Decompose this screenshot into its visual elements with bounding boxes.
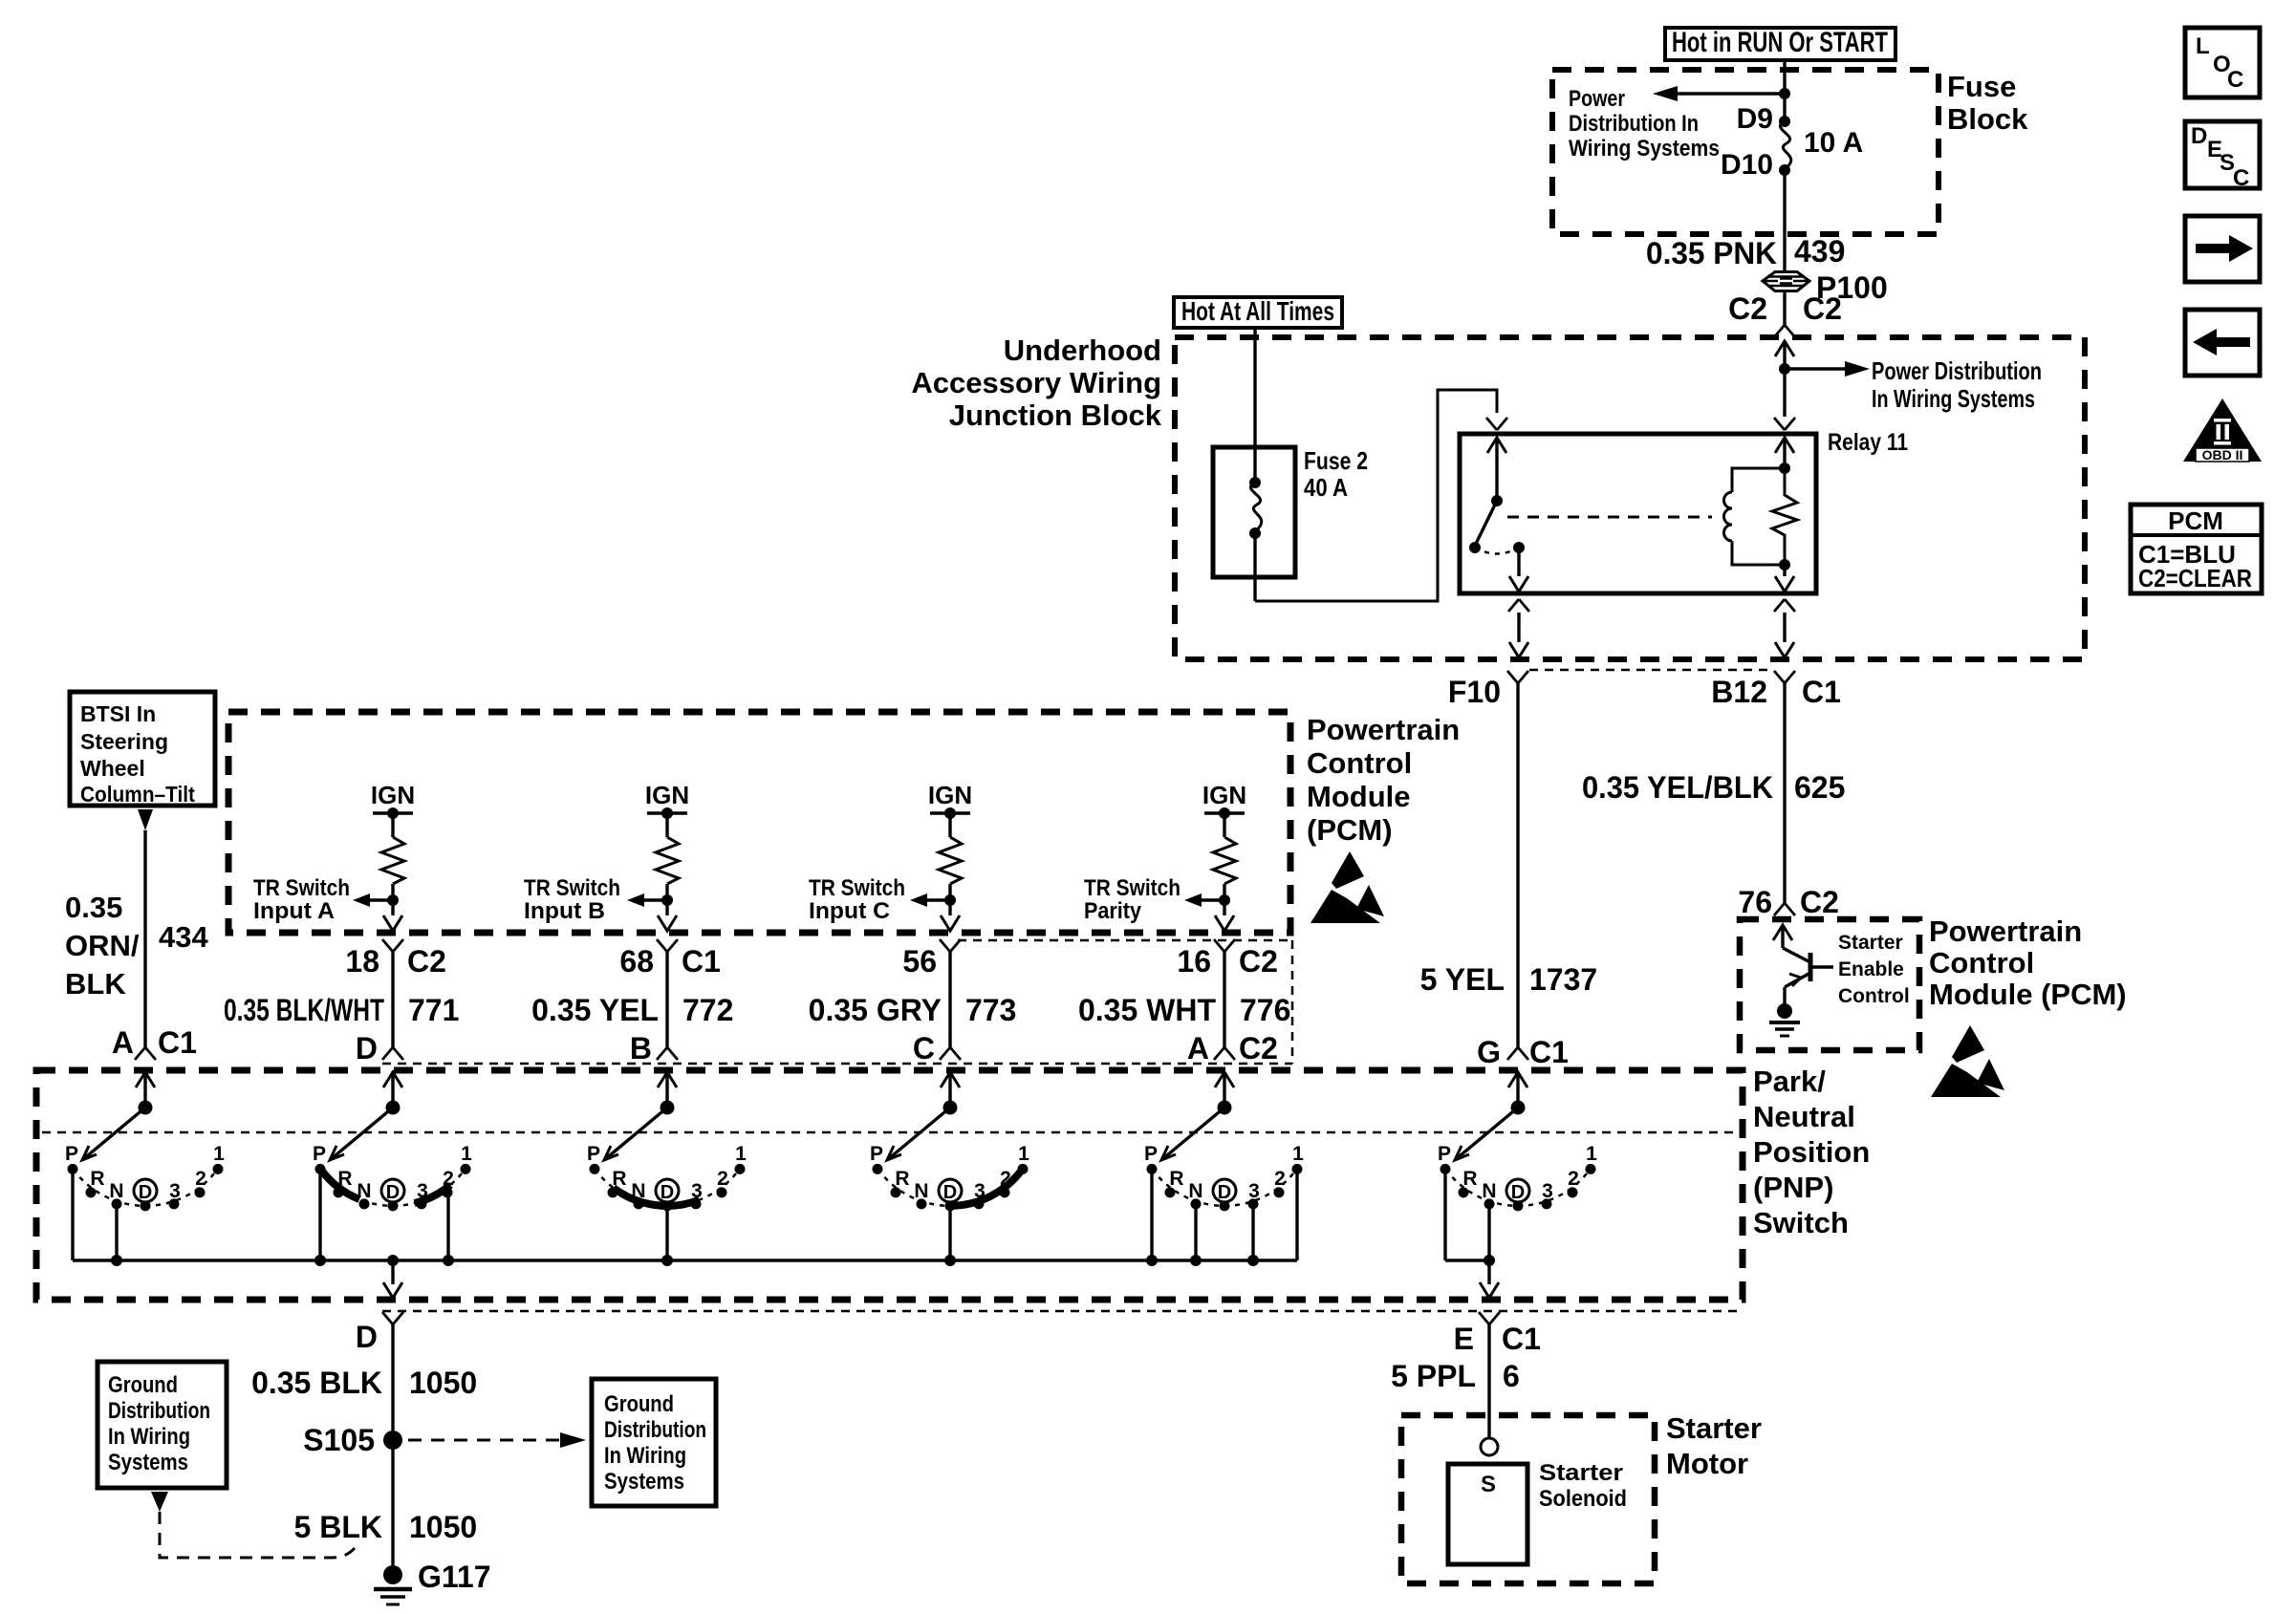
connector chevron F10	[1507, 671, 1528, 683]
svg-text:In Wiring: In Wiring	[108, 1424, 190, 1450]
svg-text:C1: C1	[1502, 1322, 1541, 1356]
relay coil bottom node	[1779, 559, 1790, 570]
svg-text:Underhood: Underhood	[1004, 334, 1161, 367]
svg-text:Module: Module	[1307, 780, 1411, 813]
PNP rotary switch S3 (B) - circled D position	[656, 1179, 679, 1202]
svg-text:P: P	[587, 1143, 600, 1165]
wire D10 to P100	[1783, 170, 1786, 271]
connector thin-dashed line below PNP	[382, 1310, 1737, 1313]
node TR input (Input C)	[944, 894, 956, 906]
icon box forward arrow	[2185, 216, 2260, 282]
svg-text:N: N	[109, 1180, 123, 1202]
connector chevron pin 68	[657, 939, 678, 952]
connector thin-dashed box (PCM C2 pins)	[958, 939, 1292, 942]
wire entering junction block with arrowhead	[1775, 341, 1794, 356]
svg-text:Distribution: Distribution	[108, 1398, 210, 1424]
svg-text:ORN/: ORN/	[65, 929, 140, 962]
svg-text:Hot At All Times: Hot At All Times	[1181, 296, 1334, 326]
PNP rotary switch S4 (C) - arm pivot dot	[943, 1101, 958, 1115]
label box Ground Distribution In Wiring Systems (left)	[97, 1362, 227, 1488]
svg-text:B: B	[630, 1031, 652, 1065]
svg-text:1737: 1737	[1529, 962, 1597, 997]
wire BTSI to PNP switch (0.35 ORN/BLK 434)	[143, 830, 146, 1047]
PNP rotary switch S4 (C) - contact arc (dashed)	[877, 1169, 1022, 1205]
svg-text:3: 3	[1248, 1180, 1260, 1202]
svg-text:G: G	[1477, 1035, 1501, 1069]
svg-text:(PCM): (PCM)	[1307, 813, 1393, 847]
PNP rotary switch S4 (C) - arm wire	[948, 1072, 951, 1108]
svg-text:BLK: BLK	[65, 967, 126, 1001]
wire 5 PPL 6 to starter solenoid	[1487, 1324, 1490, 1438]
svg-text:Ground: Ground	[604, 1391, 674, 1417]
svg-text:Relay 11: Relay 11	[1828, 429, 1908, 456]
svg-text:1050: 1050	[409, 1366, 477, 1400]
svg-text:2: 2	[195, 1168, 206, 1190]
PNP rotary switch S6 (G) - wiper arm to P	[1455, 1108, 1518, 1160]
svg-text:Position: Position	[1753, 1135, 1870, 1169]
wire 0.35 YEL 772	[665, 952, 668, 1047]
PNP rotary switch S3 (B) - arm pivot dot	[661, 1101, 675, 1115]
svg-text:C: C	[913, 1031, 935, 1065]
svg-text:Ground: Ground	[108, 1372, 178, 1398]
svg-text:N: N	[631, 1180, 645, 1202]
svg-text:3: 3	[417, 1180, 428, 1202]
arrow from BTSI box into wire	[138, 809, 153, 830]
connector chevron PNP pin A	[135, 1047, 156, 1060]
svg-text:Systems: Systems	[604, 1469, 684, 1495]
PNP rotary switch S3 (B) - arm wire	[665, 1072, 668, 1108]
wire TR input to PCM edge (Parity)	[1223, 900, 1225, 915]
relay actuation dashed link	[1507, 516, 1712, 519]
svg-text:D: D	[1511, 1182, 1525, 1203]
svg-text:C2: C2	[1728, 291, 1767, 326]
relay switch pivot dot	[1491, 495, 1503, 506]
svg-text:IGN: IGN	[371, 781, 415, 809]
PNP rotary switch S2 (D) - circled D position	[381, 1179, 404, 1202]
connector chevron pin 18	[382, 939, 403, 952]
PNP rotary switch S6 (G) - contact arc (dashed)	[1445, 1169, 1590, 1205]
PNP rotary switch S1 (A) - circled D position	[134, 1179, 157, 1202]
Park/Neutral Position Switch dashed outline	[36, 1070, 1743, 1300]
svg-text:R: R	[90, 1168, 104, 1190]
wire PNP output D to box edge	[391, 1260, 394, 1284]
svg-text:D10: D10	[1721, 149, 1773, 181]
svg-text:A: A	[1187, 1031, 1209, 1065]
wire B12 down to PCM (0.35 YEL/BLK 625)	[1783, 683, 1786, 903]
transistor base lead	[1810, 965, 1833, 968]
node TR input (Input A)	[387, 894, 399, 906]
svg-text:1: 1	[735, 1143, 747, 1165]
svg-text:0.35 PNK: 0.35 PNK	[1646, 236, 1777, 270]
ground - PCM starter enable	[1777, 1003, 1792, 1019]
svg-text:68: 68	[619, 944, 654, 979]
svg-text:Switch: Switch	[1753, 1206, 1849, 1239]
svg-text:Input A: Input A	[253, 898, 335, 924]
svg-text:N: N	[1482, 1180, 1496, 1202]
PNP rotary switch S5 (A) - contact arc (dashed)	[1152, 1169, 1296, 1205]
transistor Q - starter enable control, collector arrow	[1773, 925, 1792, 940]
relay Relay 11 box	[1460, 434, 1816, 593]
svg-text:N: N	[914, 1180, 928, 1202]
resistor pull-up (Input C)	[948, 813, 951, 837]
arrow from left ground box	[151, 1492, 168, 1512]
svg-text:C1: C1	[1802, 675, 1841, 709]
PNP rotary switch S4 (C) - contact dots P R N D 3 2 1	[873, 1164, 883, 1174]
svg-text:Park/: Park/	[1753, 1065, 1826, 1098]
PNP rotary switch S6 (G) - contact drop wire	[1487, 1204, 1490, 1260]
svg-text:773: 773	[965, 993, 1016, 1027]
connector chevron PNP pin D	[382, 1047, 403, 1060]
svg-text:R: R	[1462, 1168, 1477, 1190]
svg-text:Control: Control	[1838, 985, 1910, 1007]
transistor base bar	[1809, 953, 1813, 981]
PNP rotary switch S3 (B) - contact drop wire	[665, 1206, 668, 1260]
connector chevron PNP pin A	[1214, 1047, 1235, 1060]
svg-text:N: N	[357, 1180, 371, 1202]
PNP rotary switch S3 (B) - contact arc (dashed)	[595, 1169, 739, 1205]
svg-text:D: D	[356, 1320, 378, 1354]
starter solenoid box	[1448, 1464, 1527, 1564]
PNP rotary switch S3 (B) - contact dots P R N D 3 2 1	[590, 1164, 600, 1174]
IGN supply bar and node (Parity)	[1204, 811, 1245, 814]
relay switch pin arrow (common in)	[1487, 438, 1506, 453]
wire F10 down to PNP switch (5 YEL 1737)	[1516, 683, 1519, 1047]
PNP rotary switch S2 (D) - contact drop wire	[446, 1193, 449, 1260]
svg-text:Distribution: Distribution	[604, 1417, 706, 1443]
relay input chevrons	[1486, 418, 1507, 430]
svg-text:5 YEL: 5 YEL	[1420, 962, 1505, 997]
relay suppression resistor	[1772, 468, 1797, 565]
svg-text:A: A	[112, 1025, 134, 1060]
connector chevron PNP pin B	[657, 1047, 678, 1060]
svg-text:R: R	[612, 1168, 626, 1190]
label box BTSI In Steering Wheel Column-Tilt	[70, 692, 215, 806]
svg-text:C2=CLEAR: C2=CLEAR	[2138, 564, 2252, 592]
svg-text:Power Distribution: Power Distribution	[1872, 356, 2042, 385]
svg-text:D: D	[139, 1182, 152, 1203]
svg-text:In Wiring: In Wiring	[604, 1443, 686, 1469]
label box Ground Distribution In Wiring Systems (right)	[592, 1379, 716, 1506]
PNP rotary switch S4 (C) - closed contact segment	[947, 1169, 1023, 1205]
PNP rotary switch S2 (D) - wiper arm to P	[330, 1108, 393, 1160]
PNP rotary switch S6 (G) - arm wire	[1516, 1072, 1519, 1108]
dashed leader S105 to Ground Distribution	[408, 1439, 560, 1442]
svg-text:D: D	[356, 1031, 378, 1065]
fuse element S-curve	[1780, 121, 1790, 169]
svg-text:0.35 YEL/BLK: 0.35 YEL/BLK	[1582, 770, 1773, 805]
svg-text:Input B: Input B	[524, 898, 605, 924]
relay coil loop wiring	[1732, 468, 1785, 565]
svg-text:0.35 YEL: 0.35 YEL	[531, 993, 659, 1027]
wire TR input to PCM edge (Input C)	[948, 900, 951, 915]
svg-text:C2: C2	[1239, 1031, 1278, 1065]
svg-text:R: R	[895, 1168, 909, 1190]
ESD sensitivity triangle symbol (PCM TR inputs)	[1332, 851, 1364, 889]
svg-text:S105: S105	[303, 1423, 375, 1457]
svg-text:2: 2	[443, 1168, 454, 1190]
svg-text:56: 56	[902, 944, 937, 979]
svg-text:D: D	[2191, 123, 2207, 149]
connector chevron PNP pin C	[940, 1047, 961, 1060]
PCM connector color legend table	[2131, 505, 2262, 593]
Underhood Accessory Wiring Junction Block dashed outline	[1175, 337, 2085, 659]
svg-text:Distribution In: Distribution In	[1569, 111, 1699, 137]
wire from Hot in RUN into fuse block	[1783, 60, 1786, 121]
svg-text:18: 18	[345, 944, 379, 979]
PNP rotary switch S4 (C) - contact drop wire	[948, 1206, 951, 1260]
wire 0.35 BLK/WHT 771	[391, 952, 394, 1047]
PNP rotary switch S3 (B) - wiper arm to P	[604, 1108, 667, 1160]
svg-text:434: 434	[159, 920, 208, 954]
svg-text:1050: 1050	[409, 1510, 477, 1544]
svg-text:Starter: Starter	[1666, 1411, 1762, 1445]
PNP rotary switch S6 (G) - circled D position	[1506, 1179, 1529, 1202]
svg-text:439: 439	[1794, 234, 1845, 269]
PNP rotary switch S1 (A) - arm pivot dot	[139, 1101, 153, 1115]
svg-text:C2: C2	[1803, 291, 1842, 326]
arrow TR switch input (Input B)	[644, 898, 667, 901]
svg-text:P: P	[870, 1143, 883, 1165]
svg-text:0.35 BLK/WHT: 0.35 BLK/WHT	[224, 993, 384, 1027]
svg-text:Control: Control	[1307, 746, 1412, 780]
svg-text:2: 2	[1000, 1168, 1011, 1190]
PNP rotary switch S4 (C) - wiper arm to P	[887, 1108, 950, 1160]
wire PNP output E to box edge	[1487, 1260, 1490, 1284]
svg-text:776: 776	[1240, 993, 1290, 1027]
svg-text:C1: C1	[158, 1025, 197, 1060]
arrow to Power Distribution In Wiring Systems (left)	[1678, 92, 1785, 95]
PNP rotary switch S2 (D) - contact dots P R N D 3 2 1	[315, 1164, 326, 1174]
PNP rotary switch S2 (D) - arm pivot dot	[386, 1101, 401, 1115]
Fuse Block dashed outline	[1552, 70, 1939, 234]
svg-text:D: D	[386, 1182, 400, 1203]
PNP rotary switch S5 (A) - arm pivot dot	[1218, 1101, 1232, 1115]
svg-text:S: S	[1481, 1472, 1496, 1497]
wire 0.35 GRY 773	[948, 952, 951, 1047]
svg-text:F10: F10	[1448, 675, 1501, 709]
wire relay coil output to junction block edge	[1783, 613, 1786, 642]
arrow TR switch input (Parity)	[1202, 898, 1224, 901]
svg-text:Systems: Systems	[108, 1450, 188, 1475]
svg-text:40 A: 40 A	[1304, 473, 1348, 502]
label box "Hot At All Times"	[1174, 297, 1342, 328]
starter solenoid terminal circle	[1481, 1438, 1498, 1455]
wire P100 to junction block	[1783, 291, 1786, 325]
svg-text:Wheel: Wheel	[80, 756, 145, 781]
connector thin-dashed line F10-B12	[1529, 669, 1774, 672]
icon box DESC	[2185, 121, 2260, 188]
resistor pull-up (Input A)	[391, 813, 394, 837]
fuse Fuse 2 element	[1249, 477, 1261, 488]
node - power distribution tap in junction block	[1779, 363, 1790, 375]
svg-text:Fuse 2: Fuse 2	[1304, 446, 1368, 475]
PNP rotary switch S5 (A) - contact drop wire	[1295, 1169, 1298, 1260]
svg-text:N: N	[1188, 1180, 1202, 1202]
svg-text:1: 1	[1018, 1143, 1029, 1165]
svg-text:Neutral: Neutral	[1753, 1100, 1855, 1133]
svg-text:625: 625	[1794, 770, 1845, 805]
PNP rotary switch S2 (D) - closed contact segment	[320, 1169, 359, 1199]
svg-text:6: 6	[1503, 1359, 1520, 1393]
svg-text:Accessory Wiring: Accessory Wiring	[911, 366, 1161, 399]
PNP rotary switch S5 (A) - contact dots P R N D 3 2 1	[1147, 1164, 1158, 1174]
node S6 output	[1484, 1255, 1495, 1266]
svg-text:P: P	[313, 1143, 326, 1165]
PNP rotary switch S2 (D) - arm wire	[391, 1072, 394, 1108]
svg-text:R: R	[1169, 1168, 1183, 1190]
PNP rotary switch S2 (D) - contact drop wire	[318, 1169, 321, 1260]
svg-text:76: 76	[1738, 885, 1772, 919]
svg-text:5 BLK: 5 BLK	[294, 1510, 382, 1544]
PNP rotary switch S6 (G) - contact drop wire	[1443, 1169, 1446, 1260]
label box "Hot in RUN Or START"	[1665, 28, 1895, 60]
svg-text:C: C	[2227, 67, 2243, 93]
svg-text:1: 1	[1586, 1143, 1597, 1165]
wire TR input to PCM edge (Input A)	[391, 900, 394, 915]
Starter Motor dashed outline	[1401, 1415, 1655, 1583]
PNP rotary switch S1 (A) - arm wire	[143, 1072, 146, 1108]
PNP rotary switch S1 (A) - wiper arm to P	[82, 1108, 145, 1160]
svg-text:D: D	[1218, 1182, 1231, 1203]
icon box LOC	[2185, 28, 2260, 97]
svg-text:0.35 GRY: 0.35 GRY	[809, 993, 942, 1027]
svg-text:P: P	[65, 1143, 78, 1165]
relay output chevrons below box	[1508, 599, 1529, 612]
svg-text:771: 771	[408, 993, 459, 1027]
wire from Fuse 2 to relay switch pin (L-shape)	[1255, 390, 1497, 601]
svg-text:E: E	[1454, 1322, 1474, 1356]
svg-text:C2: C2	[407, 944, 446, 979]
svg-text:0.35: 0.35	[65, 891, 122, 924]
svg-text:Starter: Starter	[1539, 1460, 1623, 1486]
svg-text:C1: C1	[1529, 1035, 1569, 1069]
PNP rotary switch S5 (A) - contact drop wire	[1150, 1169, 1153, 1260]
icon OBD II triangle	[2183, 398, 2262, 462]
svg-text:TR Switch: TR Switch	[809, 875, 905, 901]
svg-text:Wiring Systems: Wiring Systems	[1569, 136, 1720, 161]
svg-text:2: 2	[1568, 1168, 1579, 1190]
connector chevron 76/C2	[1774, 903, 1795, 915]
relay coil pin arrow	[1775, 438, 1794, 453]
svg-text:Parity: Parity	[1084, 898, 1142, 924]
svg-text:IGN: IGN	[645, 781, 689, 809]
ground G117	[383, 1565, 402, 1584]
svg-text:PCM: PCM	[2168, 506, 2223, 535]
node TR input (Input B)	[661, 894, 673, 906]
svg-text:BTSI In: BTSI In	[80, 701, 156, 726]
svg-text:3: 3	[1542, 1180, 1553, 1202]
connector chevron at C2	[1774, 325, 1795, 337]
node - power distribution tap in fuse block	[1779, 88, 1790, 99]
svg-text:Powertrain: Powertrain	[1307, 713, 1460, 746]
svg-text:0.35 BLK: 0.35 BLK	[251, 1366, 382, 1400]
connector chevron pin 16	[1214, 939, 1235, 952]
svg-text:D: D	[661, 1182, 674, 1203]
svg-text:OBD II: OBD II	[2202, 447, 2243, 463]
IGN supply bar and node (Input C)	[930, 811, 970, 814]
wire TR input to PCM edge (Input B)	[665, 900, 668, 915]
svg-text:Enable: Enable	[1838, 958, 1904, 980]
svg-text:P: P	[1438, 1143, 1451, 1165]
svg-text:1: 1	[1292, 1143, 1304, 1165]
svg-text:C1: C1	[682, 944, 721, 979]
PNP rotary switch S5 (A) - circled D position	[1213, 1179, 1236, 1202]
PNP rotary switch S5 (A) - arm wire	[1223, 1072, 1225, 1108]
svg-text:D: D	[943, 1182, 957, 1203]
PNP rotary switch S1 (A) - contact dots P R N D 3 2 1	[68, 1164, 78, 1174]
svg-text:TR Switch: TR Switch	[524, 875, 620, 901]
svg-text:5 PPL: 5 PPL	[1391, 1359, 1476, 1393]
svg-text:2: 2	[717, 1168, 728, 1190]
resistor pull-up (Input B)	[665, 813, 668, 837]
arrow to Power Distribution In Wiring Systems (right)	[1785, 367, 1845, 370]
svg-text:3: 3	[169, 1180, 181, 1202]
connector chevron pin E	[1479, 1312, 1500, 1324]
svg-text:2: 2	[1274, 1168, 1286, 1190]
PNP rotary switch S1 (A) - contact arc (dashed)	[73, 1169, 217, 1205]
wire Hot At All Times down to Fuse 2	[1253, 328, 1256, 483]
connector chevron pin 56	[940, 939, 961, 952]
PNP rotary switch S2 (D) - closed contact segment	[415, 1185, 451, 1203]
relay coil top node	[1779, 463, 1790, 474]
svg-text:Power: Power	[1569, 86, 1625, 112]
node TR input (Parity)	[1219, 894, 1230, 906]
PNP bus junction dots	[111, 1255, 122, 1266]
arrow TR switch input (Input C)	[927, 898, 950, 901]
svg-text:C: C	[2233, 165, 2249, 191]
svg-text:C2: C2	[1800, 885, 1839, 919]
svg-text:0.35 WHT: 0.35 WHT	[1078, 993, 1216, 1027]
svg-text:G117: G117	[418, 1560, 491, 1594]
PNP rotary switch S5 (A) - contact drop wire	[1194, 1204, 1197, 1260]
connector P100 symbol	[1763, 272, 1809, 291]
PNP rotary switch S5 (A) - wiper arm to P	[1161, 1108, 1224, 1160]
PNP rotary switch S5 (A) - contact drop wire	[1251, 1204, 1254, 1260]
Powertrain Control Module dashed outline (TR inputs)	[228, 712, 1290, 933]
svg-text:1: 1	[461, 1143, 472, 1165]
svg-text:Column–Tilt: Column–Tilt	[80, 782, 195, 807]
svg-text:IGN: IGN	[1202, 781, 1246, 809]
svg-text:16: 16	[1177, 944, 1211, 979]
svg-text:3: 3	[974, 1180, 986, 1202]
svg-text:C2: C2	[1239, 944, 1278, 979]
PNP rotary switch S6 (G) - contact dots P R N D 3 2 1	[1440, 1164, 1451, 1174]
svg-text:(PNP): (PNP)	[1753, 1171, 1833, 1204]
svg-text:Fuse: Fuse	[1947, 70, 2016, 103]
Powertrain Control Module (PCM) dashed outline (starter enable)	[1740, 919, 1919, 1050]
svg-text:B12: B12	[1711, 675, 1767, 709]
relay switch dashed throw arc	[1475, 548, 1519, 554]
svg-text:IGN: IGN	[928, 781, 972, 809]
svg-text:R: R	[337, 1168, 352, 1190]
svg-text:Control: Control	[1929, 946, 2034, 979]
PNP S6 bus wire	[1445, 1259, 1489, 1261]
svg-text:3: 3	[691, 1180, 703, 1202]
connector chevron pin D (bottom)	[382, 1312, 403, 1324]
svg-text:Hot in RUN Or START: Hot in RUN Or START	[1672, 27, 1888, 58]
svg-text:772: 772	[682, 993, 733, 1027]
transistor emitter with arrow	[1785, 973, 1810, 987]
ESD sensitivity triangle symbol (PCM starter enable)	[1931, 1025, 2004, 1097]
svg-text:Junction Block: Junction Block	[949, 398, 1162, 432]
svg-text:TR Switch: TR Switch	[253, 875, 350, 901]
svg-text:Solenoid: Solenoid	[1539, 1486, 1627, 1512]
PNP rotary switch S3 (B) - closed contact segment	[614, 1188, 700, 1206]
connector chevron B12	[1774, 671, 1795, 683]
svg-text:In Wiring Systems: In Wiring Systems	[1872, 384, 2035, 413]
PNP switch inner thin-dashed boundary	[42, 1131, 1737, 1134]
PNP rotary switch S2 (D) - contact arc (dashed)	[320, 1169, 465, 1205]
